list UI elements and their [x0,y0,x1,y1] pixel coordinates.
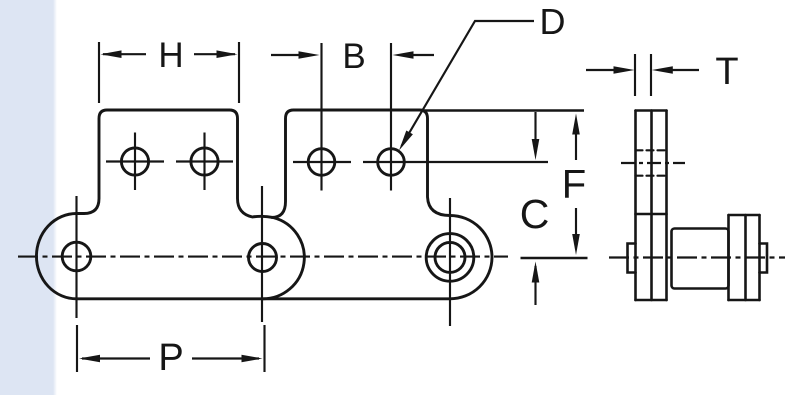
svg-text:H: H [158,36,183,75]
svg-text:D: D [540,1,566,42]
svg-text:F: F [562,163,586,207]
svg-text:C: C [520,191,550,237]
svg-text:B: B [342,37,365,76]
svg-text:P: P [158,337,183,379]
svg-text:T: T [715,51,738,93]
